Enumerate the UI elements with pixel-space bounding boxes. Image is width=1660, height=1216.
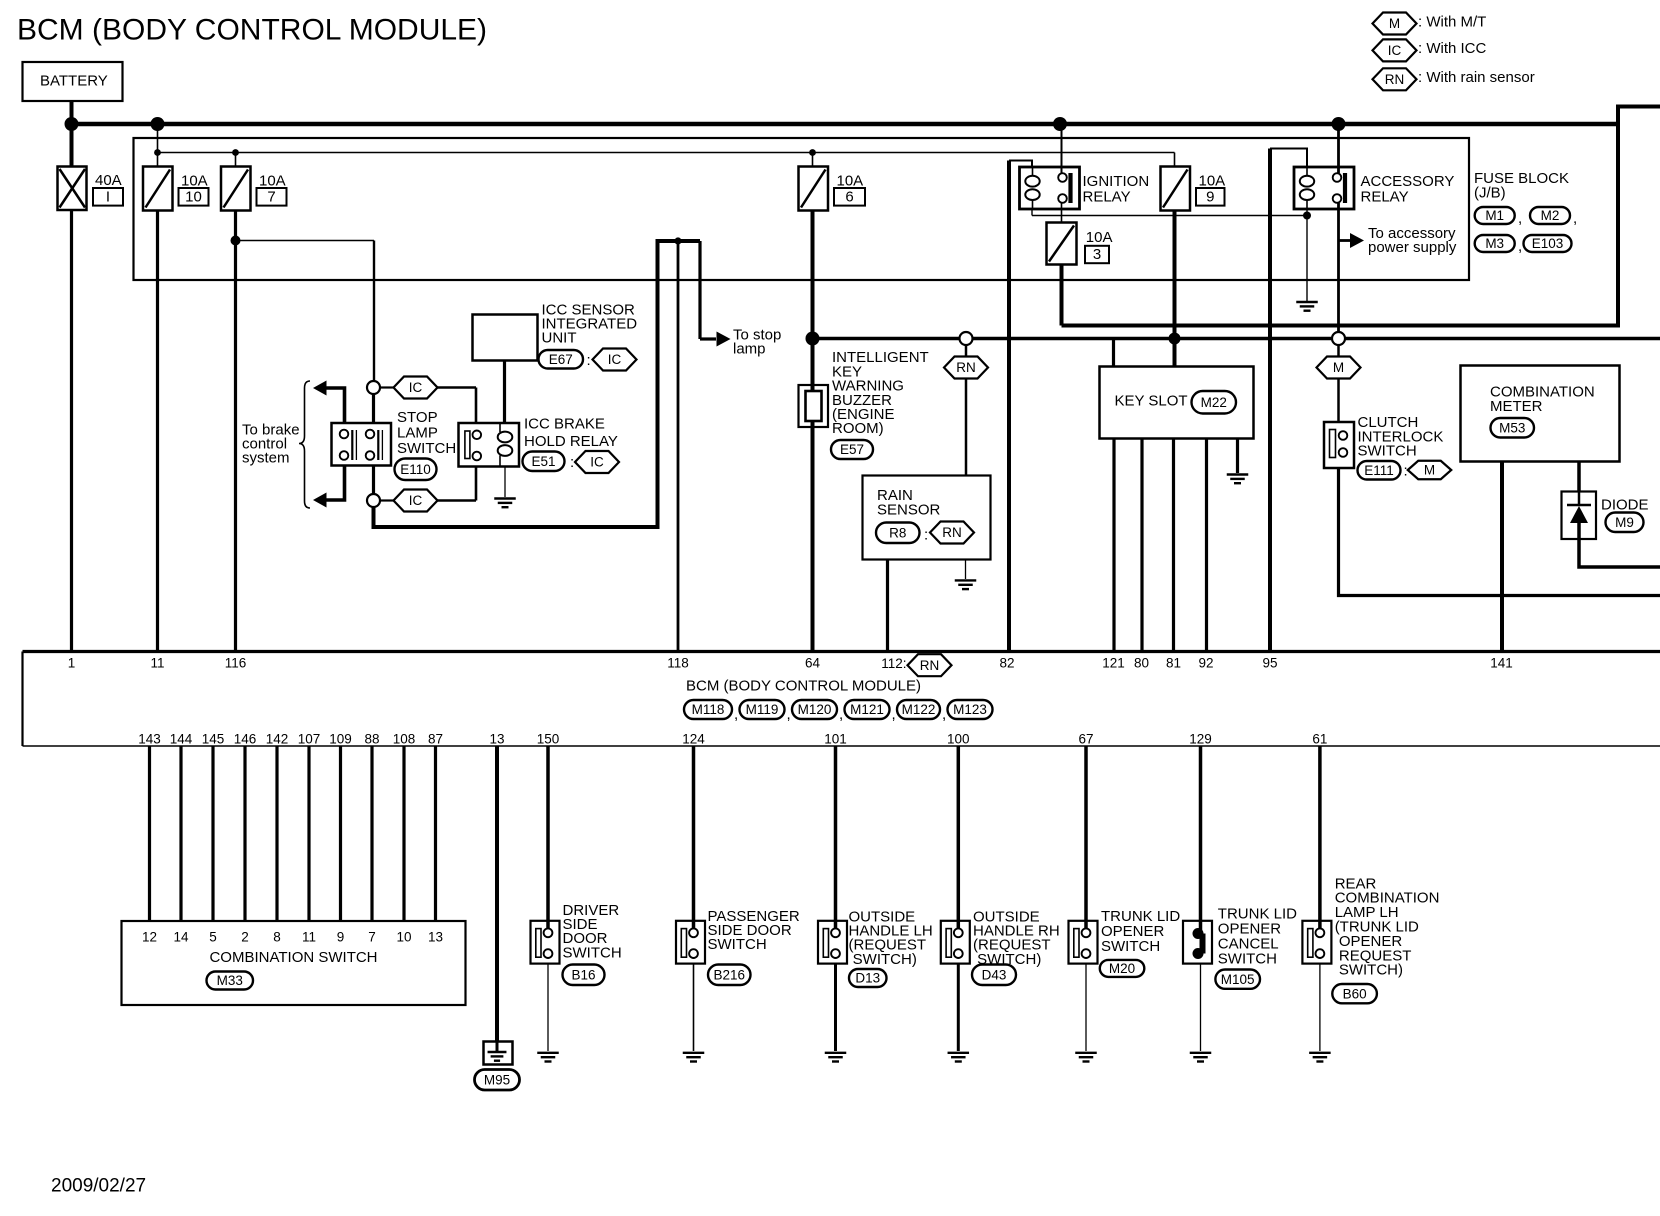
svg-text:M: M	[1333, 360, 1344, 375]
svg-text:ICC BRAKE: ICC BRAKE	[524, 415, 605, 432]
svg-text:IC: IC	[590, 455, 604, 470]
svg-text:STOP: STOP	[397, 409, 438, 426]
svg-text:7: 7	[368, 929, 376, 944]
svg-text:lamp: lamp	[733, 341, 766, 358]
svg-text:LAMP: LAMP	[397, 425, 438, 442]
svg-text:5: 5	[209, 929, 217, 944]
svg-text:61: 61	[1312, 732, 1327, 747]
svg-text:E111: E111	[1364, 463, 1394, 478]
svg-text:SENSOR: SENSOR	[877, 501, 941, 518]
svg-text:7: 7	[267, 189, 275, 206]
svg-text:88: 88	[364, 732, 379, 747]
svg-text:M122: M122	[902, 702, 936, 717]
svg-text:10A: 10A	[1086, 229, 1113, 246]
svg-text:10: 10	[185, 189, 202, 206]
svg-text:,: ,	[734, 706, 738, 723]
svg-text:SWITCH): SWITCH)	[849, 951, 917, 968]
svg-text:B216: B216	[713, 967, 745, 982]
svg-text:10A: 10A	[259, 172, 286, 189]
svg-text:109: 109	[329, 732, 352, 747]
svg-text:RN: RN	[920, 658, 940, 673]
svg-text:IC: IC	[409, 493, 423, 508]
svg-text:87: 87	[428, 732, 443, 747]
svg-text:14: 14	[173, 929, 189, 944]
svg-text:M120: M120	[798, 702, 832, 717]
svg-text:144: 144	[170, 732, 193, 747]
svg-text:BCM (BODY CONTROL MODULE): BCM (BODY CONTROL MODULE)	[17, 14, 487, 47]
svg-text:IC: IC	[1388, 43, 1402, 58]
svg-text:150: 150	[537, 732, 560, 747]
svg-text:9: 9	[1206, 189, 1214, 206]
svg-text:SWITCH: SWITCH	[708, 936, 767, 953]
svg-text:13: 13	[489, 732, 504, 747]
svg-text:124: 124	[682, 732, 705, 747]
svg-text:9: 9	[337, 929, 345, 944]
svg-text:B60: B60	[1343, 986, 1367, 1001]
svg-text:100: 100	[947, 732, 970, 747]
svg-text:M118: M118	[692, 702, 725, 717]
svg-text:,: ,	[839, 706, 843, 723]
svg-text:81: 81	[1166, 655, 1181, 670]
svg-text::: :	[570, 454, 574, 471]
svg-text:: With ICC: : With ICC	[1418, 40, 1487, 57]
svg-text:,: ,	[942, 706, 946, 723]
svg-text:107: 107	[298, 732, 321, 747]
svg-text:E57: E57	[840, 442, 864, 457]
svg-text:M33: M33	[217, 973, 243, 988]
svg-text:141: 141	[1490, 655, 1513, 670]
svg-text:145: 145	[202, 732, 225, 747]
svg-text:I: I	[106, 189, 110, 206]
svg-text:146: 146	[234, 732, 257, 747]
svg-text:ROOM): ROOM)	[832, 420, 884, 437]
svg-text:,: ,	[1518, 210, 1522, 227]
svg-text:116: 116	[225, 655, 247, 670]
svg-text:13: 13	[428, 929, 443, 944]
svg-text:,: ,	[1518, 238, 1522, 255]
svg-text:B16: B16	[571, 967, 595, 982]
svg-text:E67: E67	[549, 352, 573, 367]
svg-text:1: 1	[68, 655, 76, 670]
svg-text:E110: E110	[400, 462, 431, 477]
svg-text:D43: D43	[982, 967, 1007, 982]
svg-text:(J/B): (J/B)	[1474, 185, 1506, 202]
svg-text:6: 6	[845, 189, 853, 206]
svg-text:M53: M53	[1499, 420, 1525, 435]
svg-text:RN: RN	[1385, 72, 1405, 87]
svg-text:D13: D13	[855, 971, 880, 986]
svg-text:,: ,	[787, 706, 791, 723]
svg-text:95: 95	[1262, 655, 1277, 670]
svg-text:40A: 40A	[95, 172, 122, 189]
svg-text:M123: M123	[953, 702, 987, 717]
svg-text:IC: IC	[409, 380, 423, 395]
svg-text:,: ,	[1573, 210, 1577, 227]
svg-text:SWITCH): SWITCH)	[1335, 962, 1403, 979]
svg-text:M1: M1	[1485, 208, 1504, 223]
svg-text:108: 108	[393, 732, 416, 747]
svg-text:M105: M105	[1221, 972, 1255, 987]
svg-text:2: 2	[241, 929, 249, 944]
svg-text::: :	[587, 352, 591, 369]
svg-text:12: 12	[142, 929, 157, 944]
svg-text:10A: 10A	[181, 172, 208, 189]
svg-text:BATTERY: BATTERY	[40, 73, 108, 90]
svg-text:11: 11	[302, 929, 316, 944]
svg-text:BCM (BODY CONTROL MODULE): BCM (BODY CONTROL MODULE)	[686, 677, 921, 694]
svg-text:2009/02/27: 2009/02/27	[51, 1176, 146, 1197]
svg-text:IGNITION: IGNITION	[1083, 173, 1150, 190]
svg-text:82: 82	[999, 655, 1014, 670]
svg-text:64: 64	[805, 655, 821, 670]
svg-text:E51: E51	[531, 454, 555, 469]
svg-text:129: 129	[1189, 732, 1212, 747]
svg-text:SWITCH: SWITCH	[397, 440, 456, 457]
svg-text:M2: M2	[1541, 208, 1560, 223]
svg-text:143: 143	[138, 732, 161, 747]
svg-text:R8: R8	[889, 525, 906, 540]
svg-text:RN: RN	[956, 360, 976, 375]
svg-text:3: 3	[1093, 246, 1101, 263]
svg-text:RN: RN	[942, 525, 962, 540]
svg-text:IC: IC	[608, 352, 622, 367]
svg-text:112:: 112:	[881, 656, 906, 671]
svg-text:M119: M119	[746, 702, 779, 717]
svg-text:system: system	[242, 450, 290, 467]
svg-text:8: 8	[273, 929, 281, 944]
svg-text:67: 67	[1078, 732, 1093, 747]
svg-text:COMBINATION SWITCH: COMBINATION SWITCH	[209, 949, 377, 966]
svg-text:142: 142	[266, 732, 289, 747]
svg-text:,: ,	[892, 706, 896, 723]
svg-text:10: 10	[396, 929, 411, 944]
svg-text:power supply: power supply	[1368, 239, 1457, 256]
svg-text:RELAY: RELAY	[1083, 188, 1131, 205]
svg-text:M3: M3	[1485, 236, 1504, 251]
svg-text::: :	[1404, 463, 1408, 480]
svg-text:M22: M22	[1201, 395, 1227, 410]
svg-text:121: 121	[1102, 655, 1125, 670]
svg-text::: :	[924, 527, 928, 544]
svg-text:M9: M9	[1615, 515, 1634, 530]
svg-text:M: M	[1389, 16, 1400, 31]
svg-text:M95: M95	[484, 1072, 510, 1087]
svg-text:: With rain sensor: : With rain sensor	[1418, 69, 1535, 86]
svg-text:HOLD RELAY: HOLD RELAY	[524, 433, 618, 450]
svg-text:10A: 10A	[837, 172, 864, 189]
svg-text:11: 11	[150, 655, 164, 670]
svg-text:SWITCH: SWITCH	[1101, 938, 1160, 955]
svg-text:M121: M121	[850, 702, 884, 717]
svg-text:ACCESSORY: ACCESSORY	[1361, 173, 1455, 190]
svg-text:E103: E103	[1532, 236, 1564, 251]
svg-text:SWITCH: SWITCH	[1218, 951, 1277, 968]
svg-text:118: 118	[667, 655, 689, 670]
svg-text:10A: 10A	[1199, 172, 1226, 189]
svg-text:M20: M20	[1109, 961, 1135, 976]
svg-text:RELAY: RELAY	[1361, 188, 1409, 205]
svg-text:: With M/T: : With M/T	[1418, 13, 1486, 30]
svg-text:SWITCH: SWITCH	[563, 944, 622, 961]
svg-text:KEY SLOT: KEY SLOT	[1115, 392, 1188, 409]
svg-text:92: 92	[1198, 655, 1213, 670]
svg-text:M: M	[1424, 463, 1435, 478]
svg-text:80: 80	[1134, 655, 1149, 670]
svg-text:DIODE: DIODE	[1601, 497, 1649, 514]
svg-text:SWITCH: SWITCH	[1358, 443, 1417, 460]
svg-text:101: 101	[824, 732, 847, 747]
svg-text:UNIT: UNIT	[542, 330, 577, 347]
svg-text:METER: METER	[1490, 398, 1543, 415]
